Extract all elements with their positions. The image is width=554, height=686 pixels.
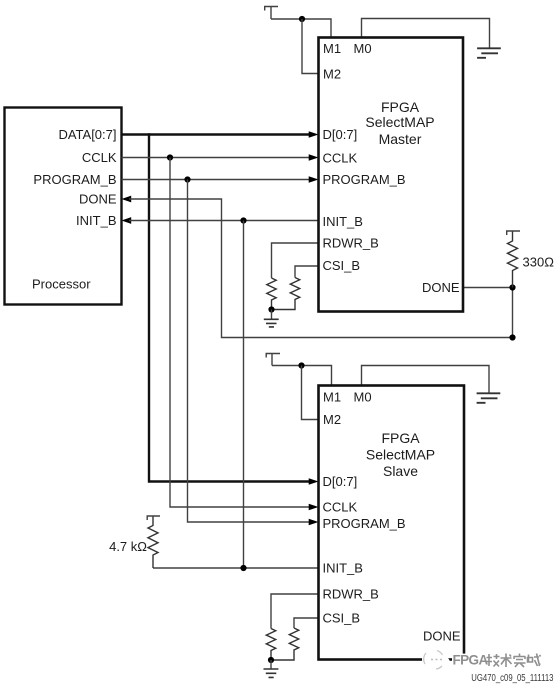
resistor R 4.7 kohm pull-up (148, 516, 158, 568)
wire DATA bus vertical branch (149, 133, 310, 481)
svg-text:FPGA: FPGA (453, 653, 489, 668)
svg-text:DONE: DONE (422, 280, 460, 295)
power symbol VCC (slave mode pins) (266, 354, 281, 366)
arrowhead into master CCLK (309, 154, 319, 160)
node junction M1/M2 slave (298, 362, 304, 368)
wire RDWR_B master pulldown (272, 243, 319, 278)
svg-text:DONE: DONE (423, 629, 461, 644)
node CCLK branch (167, 154, 173, 160)
svg-text:CCLK: CCLK (323, 151, 358, 166)
arrowhead into processor INIT_B (122, 217, 132, 224)
svg-text:M1: M1 (323, 390, 341, 405)
wire stub to ground (master pulldowns) (271, 310, 273, 319)
ground (slave pulldowns) (264, 669, 279, 677)
wire M2 net slave (302, 366, 319, 420)
svg-text:4.7 kΩ: 4.7 kΩ (109, 539, 147, 554)
wire CSI_B slave pulldown (294, 618, 319, 628)
svg-text:M1: M1 (323, 41, 341, 56)
svg-text:M2: M2 (323, 67, 341, 82)
resistor R 330 ohm pull-up (508, 231, 518, 288)
FPGA master box U1 (319, 38, 464, 312)
wire INIT_B slave horizontal (153, 567, 319, 569)
svg-text:D[0:7]: D[0:7] (323, 127, 358, 142)
wire PROGRAM_B net horizontal to master (122, 179, 311, 181)
svg-text:Master: Master (379, 131, 422, 147)
svg-text:CCLK: CCLK (323, 500, 358, 515)
node DONE / 330 ohm junction (509, 284, 515, 290)
arrowhead into slave PROGRAM_B (309, 519, 319, 525)
wire CCLK net horizontal to master (122, 157, 311, 159)
node DONE net corner (509, 334, 515, 340)
svg-text:M2: M2 (323, 412, 341, 427)
wire PROGRAM_B vertical to slave (188, 180, 311, 523)
arrowhead into master D[0:7] (309, 131, 319, 137)
ground (master pulldowns) (264, 319, 279, 327)
arrowhead into slave D[0:7] (309, 478, 319, 484)
svg-text:RDWR_B: RDWR_B (323, 236, 379, 251)
node PROGRAM_B branch (184, 176, 190, 182)
svg-text:SelectMAP: SelectMAP (366, 446, 435, 462)
node slave pulldown junction (268, 657, 274, 663)
watermark CJK glyphs (approximated) (486, 654, 541, 668)
watermark CJK glyph halos (486, 654, 541, 668)
ground (slave M0) (477, 393, 501, 403)
power symbol VCC (330 ohm) (506, 231, 520, 235)
node INIT_B slave junction (240, 565, 246, 571)
wire CCLK vertical to slave (170, 158, 310, 508)
processor box (5, 108, 122, 305)
resistor RDWR_B slave pulldown (266, 629, 275, 661)
wire M1 net slave (272, 366, 332, 386)
svg-text:DATA[0:7]: DATA[0:7] (58, 127, 116, 142)
svg-text:INIT_B: INIT_B (76, 213, 116, 228)
node master pulldown junction (268, 306, 274, 312)
wire INIT_B vertical to slave (243, 221, 245, 569)
svg-text:PROGRAM_B: PROGRAM_B (323, 172, 406, 187)
svg-text:M0: M0 (354, 41, 372, 56)
wire INIT_B net to master (129, 220, 319, 222)
wire DATA bus horizontal to master D[0:7] (122, 133, 311, 135)
arrowhead into master PROGRAM_B (309, 176, 319, 182)
svg-text:INIT_B: INIT_B (323, 561, 363, 576)
node junction M1/M2 (299, 16, 305, 22)
svg-text:M0: M0 (354, 390, 372, 405)
power symbol VCC (4.7 kohm) (147, 516, 161, 520)
svg-text:INIT_B: INIT_B (323, 214, 363, 229)
FPGA slave box U2 (319, 386, 465, 660)
svg-text:Slave: Slave (383, 463, 418, 479)
svg-text:DONE: DONE (79, 192, 117, 207)
resistor CSI_B master pulldown (272, 278, 300, 310)
svg-text:D[0:7]: D[0:7] (323, 474, 358, 489)
resistor RDWR_B master pulldown (267, 278, 276, 310)
wire M2 net (302, 19, 319, 74)
watermark logo circle (422, 649, 450, 671)
power symbol VCC (master mode pins) (264, 7, 278, 20)
svg-text:UG470_c09_05_111113: UG470_c09_05_111113 (471, 672, 553, 683)
svg-text:CSI_B: CSI_B (323, 258, 361, 273)
arrowhead into slave CCLK (309, 504, 319, 510)
svg-text:CCLK: CCLK (82, 150, 117, 165)
svg-text:FPGA: FPGA (381, 99, 420, 115)
wire M0 net slave (to GND) (362, 366, 490, 394)
resistor CSI_B slave pulldown (271, 628, 299, 660)
wire stub to ground (slave pulldowns) (270, 660, 272, 669)
arrowhead into processor DONE (122, 196, 132, 203)
wire M0 net (M0 to GND) (362, 19, 490, 49)
svg-text:330Ω: 330Ω (523, 255, 554, 270)
wire M1 net (VCC to M1) (271, 19, 331, 38)
svg-text:SelectMAP: SelectMAP (365, 114, 434, 130)
svg-text:CSI_B: CSI_B (323, 611, 361, 626)
wire DONE net (129, 199, 513, 338)
wire CSI_B master pulldown (295, 266, 319, 278)
node INIT_B branch (240, 217, 246, 223)
ground (master M0) (477, 48, 501, 58)
wire RDWR_B slave pulldown (271, 594, 319, 629)
svg-text:PROGRAM_B: PROGRAM_B (323, 516, 406, 531)
svg-text:Processor: Processor (32, 277, 91, 292)
svg-text:RDWR_B: RDWR_B (323, 587, 379, 602)
svg-text:PROGRAM_B: PROGRAM_B (33, 172, 116, 187)
svg-text:FPGA: FPGA (381, 430, 420, 446)
